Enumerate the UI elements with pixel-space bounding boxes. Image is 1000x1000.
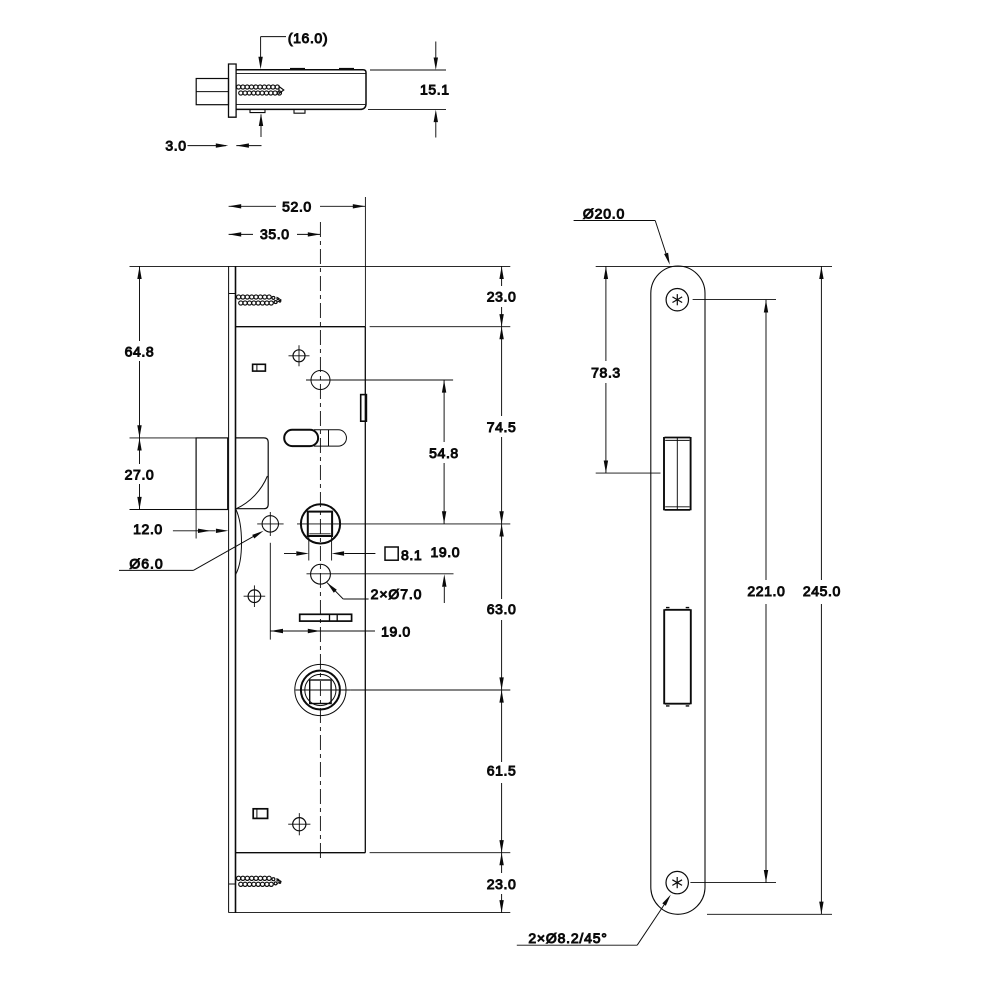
extension line from pilot circle (54.8 top) [306, 379, 453, 381]
bottom screw head (torx) [666, 871, 688, 893]
spindle square hole (upper) [301, 504, 340, 543]
upper fixing screw hole with crosshair [289, 345, 310, 366]
lower small hole divider [256, 809, 258, 819]
extension line bottom screw center [690, 882, 776, 884]
square inner chamfer line [309, 533, 330, 535]
svg-text:245.0: 245.0 [803, 583, 841, 599]
latch bolt bevel line [196, 91, 228, 93]
extension line from spindle center [340, 523, 510, 525]
latch tail spring arc [237, 476, 268, 509]
latch bolt (front view, protruding left) [196, 438, 228, 510]
face plate outline (stadium) [651, 266, 705, 914]
extension line top screw center [693, 298, 776, 300]
svg-text:12.0: 12.0 [133, 521, 163, 537]
top extension line (plate top) [596, 265, 832, 267]
deadbolt opening in face plate [664, 608, 691, 706]
faceplate right edge / case left edge [235, 266, 237, 912]
extension line from hub center [351, 689, 511, 691]
upper small rectangular hole [253, 364, 266, 371]
upper hub pilot circle [311, 371, 330, 390]
faceplate bottom edge + extension line [229, 912, 511, 914]
cylinder hub (lower, double circle with square) [295, 664, 346, 715]
follower lever swung position (thin outline) [314, 430, 346, 446]
15.1 bottom extension line [368, 109, 446, 111]
svg-text:2×Ø8.2/45°: 2×Ø8.2/45° [528, 930, 607, 946]
horizontal centerline through hub [295, 689, 350, 691]
15.1 top extension line [370, 69, 446, 71]
lock body inner bottom line [236, 104, 365, 106]
dimension square 8.1 [308, 536, 310, 560]
case bottom edge [236, 852, 366, 854]
upper small hole divider [256, 364, 258, 371]
follower lever slot (bold stadium) [284, 430, 318, 446]
extension line latch opening center [596, 472, 661, 474]
Oe7.0 hole [311, 564, 331, 584]
svg-text:54.8: 54.8 [429, 445, 459, 461]
latch opening in face plate [664, 437, 691, 510]
lower reference arrow for (16.0) [260, 115, 262, 138]
lower fixing screw hole with crosshair [288, 813, 310, 835]
latch tail piece inside case [236, 438, 268, 509]
case right edge [364, 327, 366, 853]
extension line at latch top (64.8/27.0) [130, 437, 197, 439]
svg-text:52.0: 52.0 [282, 199, 312, 215]
faceplate top edge + extension line [130, 265, 511, 267]
lever edge line [328, 430, 330, 446]
top tab segment right [339, 68, 354, 70]
faceplate left edge (front view) [228, 266, 230, 912]
extension line at latch bottom [130, 509, 197, 511]
extension line from Oe6 hole down [269, 543, 271, 640]
extension line from case top (23.0/74.5) [370, 326, 511, 328]
svg-text:3.0: 3.0 [165, 138, 186, 154]
svg-text:19.0: 19.0 [381, 624, 411, 640]
lock body inner top line [236, 73, 366, 75]
latch guide bulge arc [236, 509, 242, 574]
svg-text:2×Ø7.0: 2×Ø7.0 [371, 586, 423, 602]
top screw head (torx) [666, 289, 688, 311]
svg-text:23.0: 23.0 [487, 289, 517, 305]
svg-text:78.3: 78.3 [591, 365, 621, 381]
bottom extension line (plate bottom) [707, 913, 832, 915]
latch spring coil (side view) [237, 85, 282, 95]
top tab segment left [290, 68, 305, 70]
svg-text:61.5: 61.5 [487, 763, 517, 779]
svg-text:27.0: 27.0 [125, 466, 155, 482]
bottom mounting screw (front view) [229, 883, 236, 885]
svg-text:221.0: 221.0 [747, 583, 785, 599]
case top edge [236, 326, 366, 328]
adjustment slot [300, 614, 352, 621]
svg-text:(16.0): (16.0) [288, 30, 328, 46]
svg-text:74.5: 74.5 [487, 419, 517, 435]
spring tip point [279, 87, 284, 94]
svg-text:35.0: 35.0 [260, 226, 290, 242]
lower small rectangular hole [253, 809, 267, 819]
lock body (side view) [236, 70, 366, 110]
latch bolt head (side view) [196, 79, 228, 105]
svg-text:Ø20.0: Ø20.0 [583, 205, 625, 221]
svg-text:63.0: 63.0 [487, 601, 517, 617]
Oe6.0 hole with crosshair [262, 516, 278, 532]
svg-text:15.1: 15.1 [420, 82, 450, 98]
leader 2xOe7.0 [327, 583, 343, 599]
svg-text:19.0: 19.0 [430, 544, 460, 560]
horizontal centerline through spindle [297, 523, 340, 525]
svg-text:23.0: 23.0 [487, 876, 517, 892]
extension line from Oe7 hole center [307, 573, 454, 575]
vertical centerline (dash-dot) [319, 222, 321, 862]
bottom tab left [250, 109, 265, 112]
extension line latch left edge [195, 510, 197, 539]
svg-text:64.8: 64.8 [125, 343, 155, 359]
dimension (16.0) with leader [261, 36, 286, 38]
top mounting screw (front view) [229, 293, 236, 295]
52.0 right extension line [364, 197, 366, 327]
bottom tab right [294, 109, 305, 113]
extension line from case bottom [370, 852, 511, 854]
deadbolt opening corner nubs [666, 608, 689, 706]
side notch rectangle on case right edge [361, 395, 367, 422]
horizontal dimension 19.0 (lower) [270, 630, 320, 632]
lower fixing screw boss with crosshair [244, 585, 266, 607]
faceplate edge strip (side view) [229, 64, 237, 117]
svg-text:Ø6.0: Ø6.0 [129, 555, 163, 571]
svg-text:8.1: 8.1 [401, 547, 422, 563]
square symbol of 8.1 label [385, 547, 398, 560]
